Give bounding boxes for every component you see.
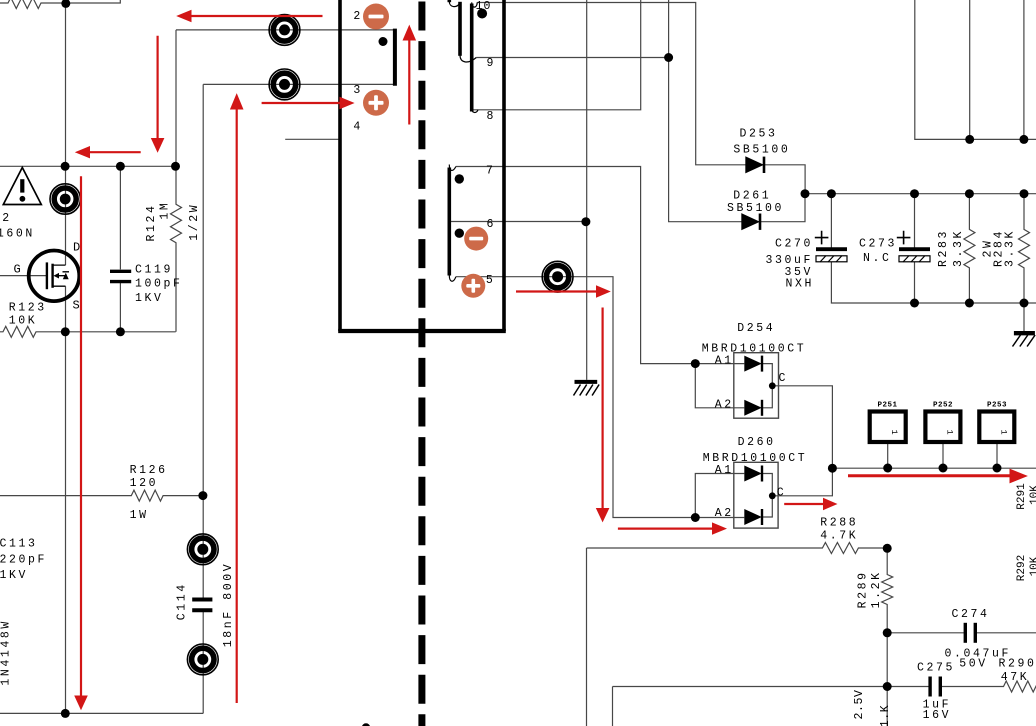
svg-text:100pF: 100pF [135, 278, 183, 291]
svg-text:NXH: NXH [785, 278, 814, 291]
svg-text:4: 4 [353, 120, 360, 133]
svg-text:7: 7 [486, 164, 493, 177]
svg-text:R292: R292 [1016, 555, 1028, 581]
svg-text:1.K: 1.K [879, 705, 892, 726]
svg-text:A1: A1 [715, 464, 734, 477]
svg-text:2: 2 [353, 10, 360, 23]
svg-text:N.C: N.C [863, 252, 892, 265]
svg-text:P253: P253 [987, 402, 1007, 410]
svg-text:SB5100: SB5100 [733, 144, 790, 157]
svg-text:C275: C275 [917, 662, 955, 675]
svg-text:C113: C113 [0, 538, 38, 551]
svg-text:P252: P252 [933, 402, 953, 410]
svg-text:R290: R290 [999, 657, 1036, 670]
svg-text:47K: 47K [1001, 671, 1030, 684]
svg-text:R123: R123 [9, 302, 47, 315]
svg-text:S: S [73, 298, 80, 312]
svg-text:1N4148W: 1N4148W [0, 619, 13, 686]
svg-text:220pF: 220pF [0, 553, 47, 566]
svg-text:2.5V: 2.5V [853, 689, 866, 719]
svg-text:R288: R288 [820, 517, 858, 530]
svg-text:2: 2 [2, 212, 9, 225]
svg-text:1KV: 1KV [135, 292, 164, 305]
svg-text:10K: 10K [1029, 556, 1036, 576]
svg-text:10K: 10K [1029, 485, 1036, 505]
svg-text:10: 10 [476, 0, 492, 13]
svg-text:1W: 1W [130, 509, 149, 522]
svg-text:R283: R283 [937, 229, 950, 267]
svg-text:1/2W: 1/2W [188, 203, 201, 241]
svg-text:A2: A2 [715, 507, 734, 520]
svg-text:G: G [14, 263, 21, 277]
svg-text:50V: 50V [959, 658, 988, 671]
svg-text:18nF 800V: 18nF 800V [222, 562, 235, 648]
svg-text:3.3K: 3.3K [1004, 229, 1017, 267]
svg-text:A1: A1 [715, 354, 734, 367]
svg-text:3: 3 [353, 84, 360, 97]
svg-text:160N: 160N [0, 228, 35, 241]
svg-text:R289: R289 [857, 570, 870, 608]
svg-text:5: 5 [486, 274, 493, 287]
svg-text:C114: C114 [176, 582, 189, 620]
svg-text:C: C [777, 486, 784, 499]
svg-text:9: 9 [487, 57, 494, 70]
svg-text:1KV: 1KV [0, 569, 28, 582]
svg-text:D261: D261 [733, 190, 771, 203]
svg-text:16V: 16V [923, 709, 952, 722]
svg-text:C273: C273 [859, 238, 897, 251]
svg-text:8: 8 [487, 110, 494, 123]
svg-text:D260: D260 [738, 436, 776, 449]
svg-text:C119: C119 [135, 263, 173, 276]
svg-text:R124: R124 [145, 203, 158, 241]
svg-text:R291: R291 [1016, 483, 1028, 510]
svg-text:D254: D254 [737, 322, 775, 335]
svg-text:C270: C270 [775, 238, 813, 251]
svg-text:SB5100: SB5100 [727, 202, 784, 215]
svg-text:R126: R126 [130, 464, 168, 477]
svg-text:6: 6 [487, 218, 494, 231]
svg-text:D253: D253 [739, 127, 777, 140]
svg-text:3.3K: 3.3K [952, 229, 965, 267]
svg-text:4.7K: 4.7K [820, 529, 858, 542]
svg-text:1: 1 [945, 429, 955, 434]
svg-text:1: 1 [889, 429, 899, 434]
svg-text:1M: 1M [158, 201, 171, 220]
svg-text:1: 1 [999, 429, 1009, 434]
svg-text:C274: C274 [952, 608, 990, 621]
svg-text:10K: 10K [9, 315, 38, 328]
svg-text:A2: A2 [715, 398, 734, 411]
svg-text:C: C [779, 372, 786, 385]
svg-text:120: 120 [130, 477, 159, 490]
svg-text:D: D [73, 240, 80, 254]
svg-text:1.2K: 1.2K [870, 570, 883, 608]
svg-text:P251: P251 [877, 402, 897, 410]
